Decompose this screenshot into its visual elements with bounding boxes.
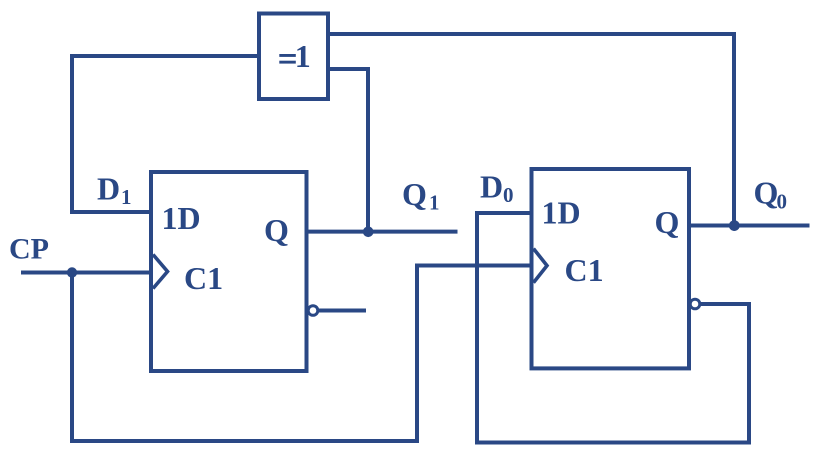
svg-text:1: 1: [121, 185, 132, 209]
flip-flop FF1 inverted output bubble: [308, 306, 318, 316]
wire Q0 output (horizontal): [689, 224, 810, 228]
svg-text:1: 1: [429, 191, 440, 215]
svg-text:0: 0: [777, 190, 788, 214]
label Q1: [402, 176, 440, 215]
svg-text:Q: Q: [402, 176, 427, 212]
wire D0 down (vertical): [475, 211, 479, 445]
label D1: [97, 171, 132, 209]
svg-text:Q: Q: [655, 204, 680, 240]
wire CP down (vertical): [70, 273, 74, 444]
wire into FF1 1D input (horizontal): [70, 210, 152, 214]
wire xor lower-right input (horizontal): [328, 67, 370, 71]
svg-text:C1: C1: [565, 252, 604, 288]
svg-text:1D: 1D: [162, 200, 201, 236]
label Q0: [754, 175, 788, 214]
svg-text:C1: C1: [184, 260, 223, 296]
wire CP up to FF2 clock (vertical): [415, 264, 419, 444]
junction CP node: [67, 267, 77, 277]
wire xor top-right to Q0 (horizontal): [328, 32, 736, 36]
wire Q0bar down (vertical): [747, 304, 751, 445]
svg-text:D: D: [97, 171, 120, 207]
junction Q1 node: [363, 227, 374, 238]
wire CP bottom run (horizontal): [70, 439, 419, 443]
wire xor output down left (vertical): [70, 54, 74, 214]
wire into FF2 1D input (horizontal): [475, 211, 532, 215]
wire CP input (horizontal): [21, 271, 151, 275]
svg-text:D: D: [480, 169, 503, 205]
flip-flop FF1 box: [151, 172, 307, 371]
svg-text:CP: CP: [9, 233, 49, 266]
wire into FF2 C1 input (horizontal): [415, 264, 532, 268]
wire Q0bar bottom run (horizontal): [475, 441, 751, 445]
svg-text:Q: Q: [754, 175, 779, 211]
xor gate U1 box (=1): [259, 14, 328, 100]
wire FF2 Qbar stub (horizontal): [700, 302, 751, 306]
flip-flop FF2 box: [532, 169, 690, 368]
junction Q0 node: [729, 220, 740, 231]
flip-flop FF2 clock triangle: [534, 249, 548, 283]
flip-flop FF1 clock triangle: [153, 255, 168, 289]
wire xor output left to D1 node (horizontal): [74, 54, 259, 58]
svg-text:Q: Q: [264, 212, 289, 248]
wire Q1 output (horizontal): [307, 230, 458, 234]
wire Q1 feedback up (vertical): [366, 67, 370, 232]
wire Q0 feedback down (vertical): [732, 32, 736, 226]
svg-text:1: 1: [295, 38, 311, 74]
svg-text:1D: 1D: [542, 195, 581, 231]
svg-text:0: 0: [503, 183, 514, 207]
xor gate U1 label =1: [279, 38, 310, 74]
label D0: [480, 169, 514, 208]
wire FF1 Qbar stub (horizontal): [318, 309, 366, 313]
flip-flop FF2 inverted output bubble: [690, 299, 700, 309]
